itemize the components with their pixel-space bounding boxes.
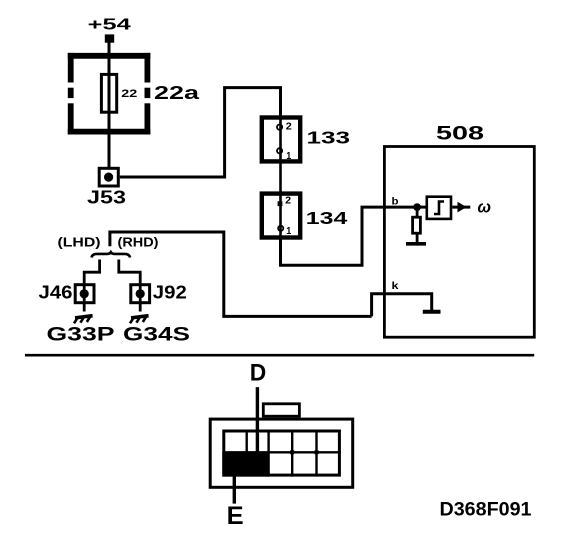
- alternative bracket: [92, 252, 131, 257]
- svg-text:D: D: [250, 360, 266, 387]
- node junction at pin b line: [413, 203, 421, 211]
- connector view outer housing: [210, 419, 353, 487]
- ground below resistor: [406, 242, 426, 246]
- svg-text:J53: J53: [87, 188, 126, 208]
- label J53: [87, 188, 126, 208]
- svg-text:G34S: G34S: [123, 323, 190, 345]
- svg-text:+54: +54: [88, 16, 131, 33]
- wire into pin k to internal ground: [372, 294, 432, 317]
- wire through switch 134: [279, 192, 282, 241]
- wire from +54 terminal through fuse to J53: [108, 42, 111, 167]
- pin label k: [392, 281, 400, 292]
- label E: [227, 502, 244, 530]
- pin 2 of 134: [278, 196, 292, 207]
- connector J46: [75, 285, 94, 303]
- wire switch 134 to control unit pin b: [281, 207, 418, 265]
- fuse box S22 dashed enclosure: [68, 53, 151, 135]
- svg-text:508: 508: [436, 123, 484, 144]
- label J92: [153, 283, 187, 303]
- svg-text:134: 134: [306, 208, 348, 228]
- svg-text:(LHD): (LHD): [58, 236, 101, 250]
- connector view pin grid: [222, 430, 341, 477]
- resistor R1: [413, 207, 421, 242]
- svg-text:k: k: [392, 281, 400, 292]
- wire J53 to switch 133: [120, 88, 281, 177]
- svg-text:G33P: G33P: [47, 323, 115, 345]
- pin 1 of 133: [277, 148, 292, 162]
- label +54 supply: [88, 16, 131, 33]
- pin 1 of 134: [278, 226, 291, 238]
- wire junction to trigger: [417, 206, 427, 209]
- label 508: [436, 123, 484, 144]
- output symbol omega: [478, 198, 492, 217]
- separator line: [25, 354, 534, 357]
- label 22 (inside fuse box): [121, 88, 137, 100]
- label D368F091: [440, 499, 532, 520]
- svg-text:b: b: [392, 197, 399, 208]
- continuation mark below J92: [130, 316, 149, 324]
- svg-text:2: 2: [286, 122, 292, 133]
- label (LHD): [58, 236, 101, 250]
- highlighted pin cell E (filled): [222, 452, 269, 476]
- label 133: [307, 128, 351, 148]
- switch box 133: [262, 118, 300, 162]
- svg-text:22a: 22a: [154, 83, 200, 103]
- connector view tab: [263, 404, 299, 416]
- svg-text:J46: J46: [39, 283, 73, 303]
- svg-text:J92: J92: [153, 283, 187, 303]
- wire bracket to J46: [84, 260, 99, 284]
- wire through J92: [139, 283, 142, 311]
- pin label b: [392, 197, 399, 208]
- terminal square +54: [105, 34, 114, 42]
- svg-text:133: 133: [307, 128, 351, 148]
- svg-text:2: 2: [285, 196, 291, 207]
- svg-text:ω: ω: [478, 198, 492, 217]
- label G33P: [47, 323, 115, 345]
- wire LHD/RHD branch to 508: [110, 232, 372, 316]
- svg-text:22: 22: [121, 88, 137, 100]
- svg-text:D368F091: D368F091: [440, 499, 532, 520]
- label D: [250, 360, 266, 387]
- label G34S: [123, 323, 190, 345]
- wire D into connector view: [256, 387, 259, 453]
- trigger box U1 (pulse shaper): [427, 197, 451, 219]
- switch box 134: [262, 194, 300, 238]
- continuation mark below J46: [74, 316, 93, 324]
- svg-text:1: 1: [286, 226, 291, 237]
- label 134: [306, 208, 348, 228]
- connector J92: [131, 285, 150, 303]
- svg-text:1: 1: [286, 151, 291, 162]
- svg-text:(RHD): (RHD): [118, 236, 159, 250]
- output arrow: [452, 202, 470, 213]
- label J46: [39, 283, 73, 303]
- control unit box 508: [384, 147, 534, 338]
- wire through J46: [83, 283, 86, 311]
- fuse element 22: [101, 74, 116, 112]
- wire bracket to J92: [119, 260, 140, 284]
- label (RHD): [118, 236, 159, 250]
- wire E from connector view: [233, 476, 236, 504]
- svg-text:E: E: [227, 502, 244, 530]
- label 22a: [154, 83, 200, 103]
- wire through switch 133: [279, 116, 282, 192]
- pin 2 of 133: [277, 122, 292, 133]
- connector J53: [99, 168, 118, 186]
- ground inside 508: [423, 310, 441, 314]
